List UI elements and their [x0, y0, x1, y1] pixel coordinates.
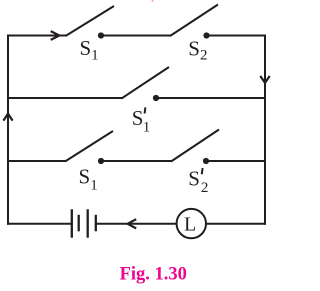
- node dot of S1 (row 3): [98, 158, 104, 164]
- node dot of S2' (row 3): [203, 158, 209, 164]
- wire top-middle segment: [101, 35, 171, 37]
- svg-text:S: S: [188, 166, 200, 190]
- switch S2' blade (row 3): [171, 130, 219, 162]
- svg-text:2: 2: [200, 48, 208, 64]
- battery B1 (two cells): [72, 209, 96, 237]
- switch S1 blade (row 3): [65, 131, 113, 162]
- svg-text:2: 2: [201, 180, 209, 196]
- wire row3 right segment: [206, 160, 266, 162]
- node dot of S2 (top row): [203, 32, 209, 38]
- current arrow right on top wire: [51, 31, 60, 40]
- switch S1 blade (top row): [66, 6, 115, 36]
- switch S1' blade (row 2): [122, 67, 170, 99]
- node dot of S1 (top row): [98, 32, 104, 38]
- label S1 (top row): [80, 36, 99, 64]
- wire bottom-right segment: [206, 223, 266, 225]
- svg-text:Fig. 1.30: Fig. 1.30: [120, 264, 187, 284]
- label S2 (top row): [188, 37, 207, 64]
- wire row2 left segment: [8, 97, 122, 99]
- wire row2 right segment: [156, 97, 266, 99]
- current arrow down on right wire: [260, 76, 269, 83]
- wire row3 left segment: [8, 160, 66, 162]
- wire right vertical: [264, 35, 266, 225]
- switch S2 blade (top row): [170, 5, 218, 37]
- wire battery-to-lamp segment: [96, 223, 176, 225]
- node dot of S1' (row 2): [153, 95, 159, 101]
- svg-text:S: S: [132, 106, 144, 130]
- current arrow up on left wire: [3, 114, 12, 121]
- label S2' (row 3): [188, 166, 208, 196]
- svg-text:S: S: [188, 37, 200, 61]
- lamp L: [177, 209, 206, 238]
- label S1' (row 2): [132, 106, 151, 136]
- caption Fig. 1.30: [120, 264, 187, 284]
- current arrow left on bottom wire: [128, 219, 137, 228]
- svg-text:1: 1: [143, 120, 151, 136]
- wire top-right segment: [207, 35, 267, 37]
- svg-text:L: L: [184, 214, 196, 236]
- svg-text:S: S: [79, 164, 91, 188]
- svg-text:S: S: [80, 36, 92, 60]
- wire bottom-left segment: [7, 223, 71, 225]
- label S1 (row 3): [79, 164, 98, 193]
- svg-text:1: 1: [91, 48, 99, 64]
- wire top-left segment: [8, 35, 66, 37]
- stray pink mark (scan artifact): [152, 0, 154, 2]
- wire left vertical: [7, 35, 9, 225]
- wire row3 middle segment: [101, 160, 172, 162]
- svg-text:1: 1: [90, 177, 98, 193]
